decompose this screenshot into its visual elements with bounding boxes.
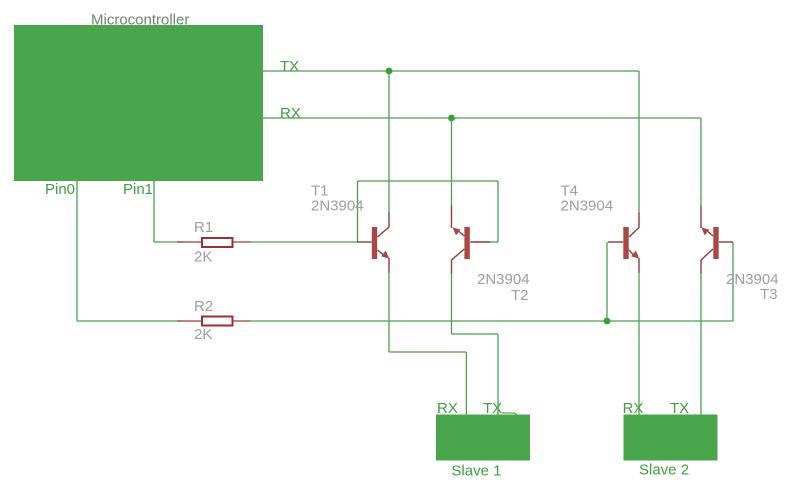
svg-text:Pin1: Pin1: [123, 181, 153, 198]
wire slave1 TX vertical: [497, 334, 499, 416]
svg-text:T2: T2: [511, 287, 529, 304]
svg-text:2K: 2K: [194, 248, 212, 265]
transistor T3: [701, 206, 733, 275]
transistor T1: [357, 212, 389, 273]
node RX junction: [448, 115, 455, 122]
wire Pin1 to R1: [154, 241, 183, 243]
wire R2 long horizontal to T3 base: [251, 320, 733, 322]
microcontroller block: [14, 25, 263, 181]
wire TX horizontal: [263, 70, 639, 72]
node TX junction: [386, 68, 393, 75]
slave 2 block: [624, 415, 718, 461]
wire T2 base green segment: [490, 241, 498, 243]
svg-text:TX: TX: [670, 400, 689, 417]
slave1 TX pin stub: [502, 412, 515, 414]
wire T1 emitter down: [388, 272, 390, 352]
svg-text:Slave 1: Slave 1: [451, 463, 501, 480]
svg-text:TX: TX: [280, 58, 299, 75]
wire base-link vertical right to T2 base: [497, 181, 499, 242]
wire T3 collector down to slave2 TX: [700, 273, 702, 416]
wire RX horizontal: [263, 117, 701, 119]
svg-text:TX: TX: [483, 400, 502, 417]
svg-text:Pin0: Pin0: [45, 181, 75, 198]
svg-text:RX: RX: [437, 400, 458, 417]
wire T3 base vertical: [732, 242, 734, 321]
wire base-link vertical left: [357, 181, 359, 242]
transistor T2: [452, 206, 491, 275]
svg-text:R2: R2: [194, 298, 213, 315]
wire T1 emitter horizontal to slave1 RX: [389, 351, 466, 353]
wire T2 collector down: [451, 273, 453, 334]
wire RX right end down to T3 emitter: [700, 118, 702, 206]
wire T4 emitter down to slave2 RX: [638, 272, 640, 416]
resistor R1: [177, 238, 251, 247]
transistor T4: [608, 212, 639, 274]
wire T4 base vertical: [606, 242, 608, 321]
wire Pin0 vertical: [76, 181, 78, 321]
wire slave1 RX vertical: [465, 352, 467, 416]
node T4 base junction: [604, 318, 611, 325]
svg-text:RX: RX: [623, 400, 644, 417]
wire base-link top horizontal: [358, 180, 499, 182]
wire T2 collector horizontal to slave1 TX: [452, 333, 499, 335]
svg-text:2K: 2K: [194, 326, 212, 343]
wire TX junction down to T1 collector: [388, 71, 390, 212]
wire Pin0 to R2: [77, 320, 183, 322]
svg-text:Microcontroller: Microcontroller: [91, 12, 189, 29]
svg-text:2N3904: 2N3904: [561, 198, 614, 215]
wire RX junction down to T2 emitter: [451, 118, 453, 206]
svg-text:Slave 2: Slave 2: [639, 462, 689, 479]
wire Pin1 vertical: [153, 181, 155, 242]
svg-text:T3: T3: [760, 286, 778, 303]
wire TX right end down to T4 collector: [638, 71, 640, 211]
svg-text:2N3904: 2N3904: [311, 198, 364, 215]
svg-text:2N3904: 2N3904: [477, 271, 530, 288]
wire R1 to T1 base: [251, 241, 358, 243]
resistor R2: [177, 317, 251, 326]
svg-text:R1: R1: [194, 219, 213, 236]
svg-text:RX: RX: [280, 105, 301, 122]
slave 1 block: [436, 415, 530, 461]
